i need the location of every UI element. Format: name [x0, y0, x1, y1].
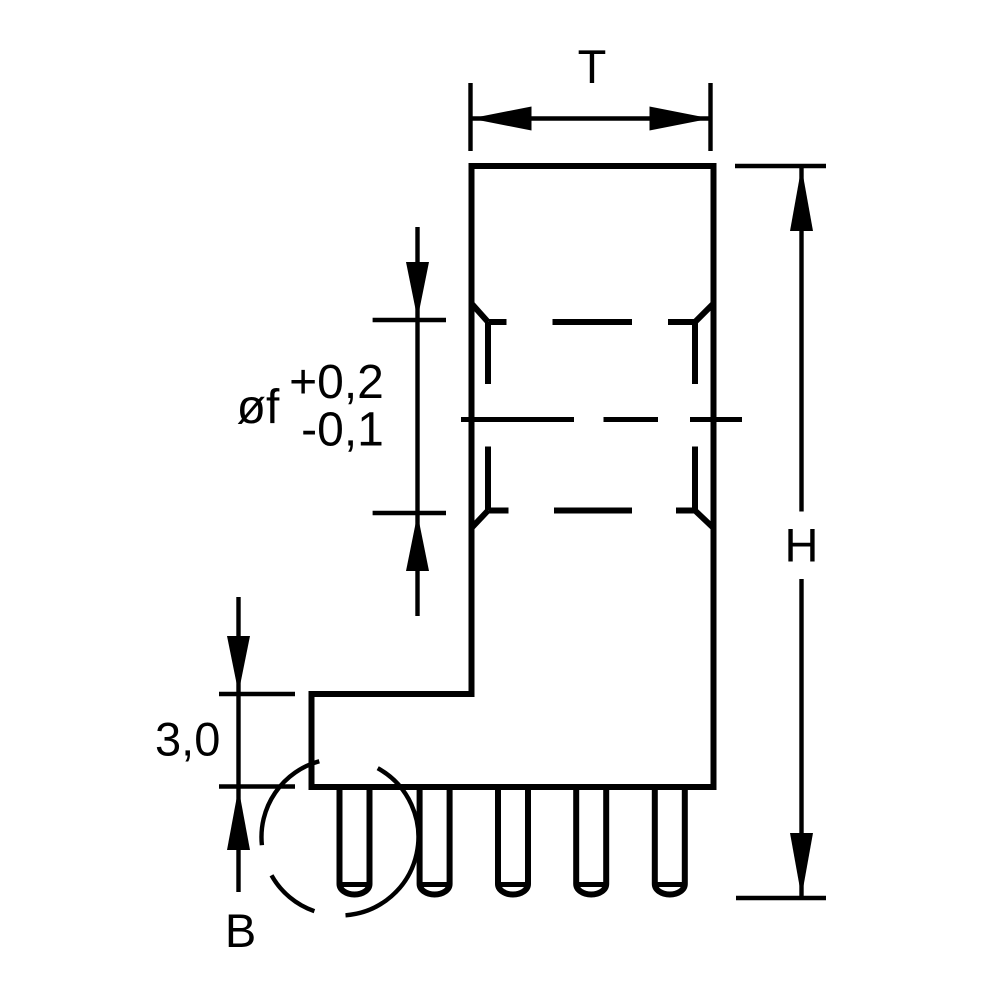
pin 3	[498, 787, 528, 895]
hidden hole top line	[489, 319, 696, 325]
svg-text:-0,1: -0,1	[301, 404, 384, 457]
svg-text:3,0: 3,0	[155, 713, 220, 766]
hidden hole left wall	[485, 322, 491, 511]
pin 5	[655, 787, 685, 895]
pin 4	[576, 787, 606, 895]
detail circle B	[261, 761, 418, 915]
svg-text:H: H	[785, 519, 819, 572]
svg-text:+0,2: +0,2	[289, 356, 384, 409]
dimension 3,0	[155, 597, 295, 892]
body outline	[312, 166, 714, 787]
chamfer diagonals	[472, 304, 714, 529]
hidden hole right wall	[692, 322, 698, 511]
dimension H	[735, 166, 826, 898]
svg-text:B: B	[225, 904, 256, 957]
dimension of hole height (øf)	[373, 227, 446, 616]
svg-text:T: T	[578, 40, 607, 93]
hidden hole bottom line	[489, 508, 696, 514]
pin 1	[340, 787, 370, 895]
svg-text:øf: øf	[237, 381, 280, 434]
dimension T	[471, 40, 711, 151]
hole center line	[461, 417, 742, 422]
pin 2	[420, 787, 450, 895]
